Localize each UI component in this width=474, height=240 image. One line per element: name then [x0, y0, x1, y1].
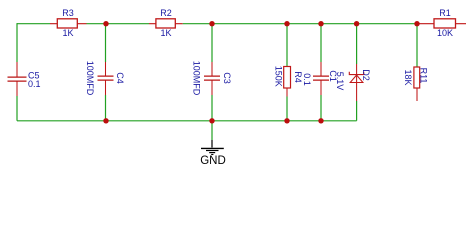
- wire top between R3 and R2: [87, 23, 150, 25]
- resistor R11: [403, 67, 429, 101]
- junction bottom C1: [318, 118, 323, 123]
- junction bottom C4: [103, 118, 108, 123]
- junction top C3: [209, 21, 214, 26]
- svg-text:10K: 10K: [437, 28, 453, 38]
- svg-text:1K: 1K: [160, 28, 171, 38]
- svg-text:D2: D2: [361, 69, 371, 81]
- wire GND stub vertical: [211, 121, 213, 140]
- ground: [200, 140, 226, 167]
- svg-text:5.1V: 5.1V: [335, 72, 345, 91]
- svg-text:18K: 18K: [403, 69, 413, 85]
- wire top-left horizontal: [17, 23, 50, 25]
- junction bottom R4: [284, 118, 289, 123]
- wire left vertical C5 branch: [16, 23, 18, 121]
- junction top C4: [103, 21, 108, 26]
- junction top R4: [284, 21, 289, 26]
- wire R4 branch vertical: [286, 24, 288, 121]
- wire top between R2 and R1 junction: [183, 23, 417, 25]
- svg-text:R3: R3: [62, 8, 74, 18]
- wire R11 branch vertical: [416, 24, 418, 67]
- capacitor C5: [8, 62, 41, 96]
- wire C4 branch vertical: [105, 24, 107, 121]
- zener diode D2: [335, 64, 371, 101]
- svg-text:R2: R2: [160, 8, 172, 18]
- capacitor C4: [85, 61, 125, 96]
- svg-text:100MFD: 100MFD: [192, 61, 202, 96]
- junction top C1: [318, 21, 323, 26]
- junction top D2: [354, 21, 359, 26]
- wire C3 branch vertical: [211, 24, 213, 121]
- resistor R2: [149, 8, 183, 38]
- svg-text:100MFD: 100MFD: [85, 61, 95, 96]
- svg-text:GND: GND: [200, 155, 226, 167]
- svg-text:C3: C3: [222, 72, 232, 84]
- svg-text:0.1: 0.1: [302, 73, 312, 86]
- svg-text:R4: R4: [293, 71, 303, 83]
- svg-text:R1: R1: [439, 8, 451, 18]
- wire bottom horizontal: [17, 120, 357, 122]
- wire D2 branch vertical: [356, 24, 358, 121]
- svg-text:C4: C4: [115, 72, 125, 84]
- capacitor C1: [302, 62, 338, 95]
- wire C1 branch vertical: [320, 24, 322, 121]
- svg-text:1K: 1K: [62, 28, 73, 38]
- resistor R3: [50, 8, 87, 38]
- junction bottom GND: [209, 118, 214, 123]
- svg-text:150K: 150K: [274, 66, 284, 87]
- resistor R4: [274, 66, 304, 97]
- junction top R11: [414, 21, 419, 26]
- svg-text:R11: R11: [419, 68, 429, 84]
- svg-text:0.1: 0.1: [28, 79, 41, 89]
- resistor R1: [417, 8, 466, 38]
- capacitor C3: [192, 61, 232, 96]
